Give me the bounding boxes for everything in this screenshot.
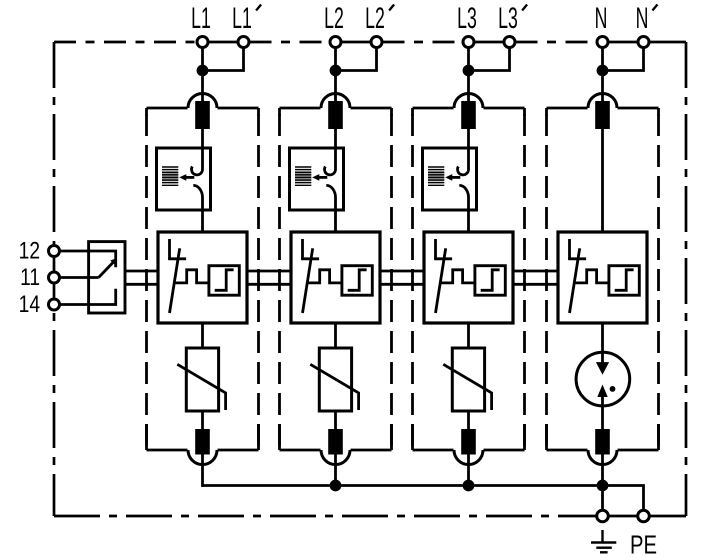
wire L3′ jumper to junction node	[474, 47, 510, 71]
plug-in contact arc (bottom) L2 branch	[321, 450, 350, 465]
junction node L1	[197, 65, 209, 77]
disconnect indication arrow L2	[312, 174, 327, 181]
junction node N	[597, 65, 609, 77]
internal bus lines between SPD modules	[125, 271, 558, 284]
trigger square-wave trace L2	[307, 270, 342, 283]
plug-in contact arc (bottom) N branch	[588, 450, 617, 465]
disconnection monitoring unit box L2	[290, 148, 344, 210]
wire terminal 12 to changeover contact	[54, 251, 116, 267]
remote signalling changeover contact box	[89, 242, 125, 313]
wire SPD module to varistor L3	[467, 323, 470, 348]
thermal disconnect device (bottom, filled) L2	[328, 429, 343, 455]
svg-text:14: 14	[19, 290, 40, 318]
moving contact arc and wire to SPD module L3	[459, 185, 468, 232]
fixed contact with hook L1	[192, 148, 203, 175]
wire SPD module to varistor L1	[201, 323, 204, 348]
plug-in contact arc (top) N branch	[588, 94, 617, 109]
wire SPD module to varistor L2	[334, 323, 337, 348]
disconnection monitoring unit box L3	[423, 148, 477, 210]
junction node L3	[463, 65, 475, 77]
wire L2 branch to PE bus	[334, 454, 337, 487]
thermal disconnect device (top, filled) L1 branch	[195, 101, 210, 129]
moving contact arc and wire to SPD module L2	[326, 185, 335, 232]
labels for phase terminals	[191, 2, 657, 35]
fixed contact with hook L2	[325, 148, 336, 175]
wire varistor to bottom disconnector L1	[201, 411, 204, 430]
terminal L3′	[504, 37, 515, 48]
disconnect indication arrow L1	[179, 174, 194, 181]
varistor (MOV) L3	[443, 348, 491, 411]
svg-text:N: N	[595, 2, 608, 35]
plug-in contact arc (top) L1 branch	[188, 94, 217, 109]
wire varistor to bottom disconnector L2	[334, 411, 337, 430]
trigger unit box N	[609, 266, 639, 296]
disconnect indication arrow L3	[445, 174, 460, 181]
terminal 12	[49, 246, 60, 257]
trigger square-wave trace L3	[440, 270, 475, 283]
plug-in contact arc (bottom) L3 branch	[454, 450, 483, 465]
wire PE bus down to PE terminal	[601, 486, 604, 517]
terminal PE-prime	[638, 510, 650, 522]
junction node N on PE bus	[597, 480, 609, 492]
thermal disconnect device (bottom, filled) L3	[461, 429, 476, 455]
changeover contact blade with arrow	[99, 258, 117, 277]
isolating switch symbol N	[568, 239, 586, 313]
terminal PE	[597, 510, 609, 522]
varistor (MOV) L2	[310, 348, 358, 411]
thermal disconnect device (bottom, filled) L1	[195, 429, 210, 455]
wire L1 branch to PE bus	[201, 454, 204, 487]
step function symbol L3	[481, 270, 500, 291]
step function symbol L1	[215, 270, 234, 291]
junction node L3 on PE bus	[463, 480, 475, 492]
ground symbol	[591, 530, 616, 552]
thermal disconnect device (top, filled) L3 branch	[461, 101, 476, 129]
status indicator hatch block L2	[295, 167, 311, 185]
trigger square-wave trace N	[574, 270, 609, 283]
wire disconnector to monitoring unit L1	[201, 129, 204, 149]
step function symbol N	[615, 270, 634, 291]
plug-in contact arc (top) L2 branch	[321, 94, 350, 109]
trigger square-wave trace L1	[174, 270, 209, 283]
wire L1′ jumper to junction node	[208, 47, 244, 71]
varistor (MOV) L1	[177, 348, 225, 411]
wire L3 branch to PE bus	[467, 454, 470, 487]
step function symbol L2	[348, 270, 367, 291]
thermal disconnect device (top, filled) L2 branch	[328, 101, 343, 129]
wire N branch to PE bus	[601, 454, 604, 487]
terminal N′	[638, 37, 649, 48]
thermal disconnect device (top, filled) N branch	[595, 101, 610, 129]
triggered spark gap N-PE	[576, 352, 630, 430]
SPD module box (switching element) L2	[291, 232, 380, 323]
dashed enclosure N branch	[547, 108, 659, 450]
wire N terminal down to disconnector	[601, 47, 604, 104]
SPD module box (switching element) L1	[158, 232, 247, 323]
terminal L2′	[371, 37, 382, 48]
dashed enclosure L2 branch	[280, 108, 392, 450]
outer enclosure border (dash-dot)	[54, 42, 686, 516]
wire L3 terminal down to disconnector	[467, 47, 470, 104]
terminal 11	[49, 272, 60, 283]
labels 12 11 14	[19, 236, 40, 317]
wire terminal 14 to changeover contact	[54, 289, 116, 305]
trigger unit box L2	[342, 266, 372, 296]
SPD module box (switching element) N	[558, 232, 647, 323]
junction node L2 on PE bus	[330, 480, 342, 492]
svg-text:L3: L3	[498, 2, 518, 35]
status indicator hatch block L1	[162, 167, 178, 185]
trigger unit box L1	[209, 266, 239, 296]
plug-in contact arc (bottom) L1 branch	[188, 450, 217, 465]
dashed enclosure L3 branch	[413, 108, 525, 450]
isolating switch symbol L1	[168, 239, 186, 313]
svg-text:L1: L1	[191, 2, 211, 35]
svg-text:L1: L1	[232, 2, 252, 35]
wire disconnector to SPD module N	[601, 129, 604, 232]
terminal L1	[197, 37, 208, 48]
status indicator hatch block L3	[428, 167, 444, 185]
moving contact arc and wire to SPD module L1	[193, 185, 202, 232]
wire L2 terminal down to disconnector	[334, 47, 337, 104]
plug-in contact arc (top) L3 branch	[454, 94, 483, 109]
terminal N	[597, 37, 608, 48]
wire disconnector to monitoring unit L2	[334, 129, 337, 149]
dashed enclosure L1 branch	[147, 108, 259, 450]
fixed contact with hook L3	[458, 148, 469, 175]
trigger unit box L3	[475, 266, 505, 296]
wire terminal 11 to changeover contact	[54, 276, 99, 279]
svg-text:11: 11	[20, 263, 40, 291]
wire disconnector to monitoring unit L3	[467, 129, 470, 149]
svg-text:PE: PE	[630, 530, 657, 559]
disconnection monitoring unit box L1	[157, 148, 211, 210]
svg-text:12: 12	[19, 236, 40, 264]
wire L2′ jumper to junction node	[341, 47, 377, 71]
wire PE bus to PE-prime terminal	[603, 486, 644, 517]
terminal L2	[330, 37, 341, 48]
terminal L1′	[238, 37, 249, 48]
svg-text:L3: L3	[457, 2, 477, 35]
wire varistor to bottom disconnector L3	[467, 411, 470, 430]
SPD module box (switching element) L3	[424, 232, 513, 323]
junction node L2	[330, 65, 342, 77]
isolating switch symbol L2	[301, 239, 319, 313]
svg-text:L2: L2	[324, 2, 344, 35]
PE bus wire	[203, 484, 603, 487]
isolating switch symbol L3	[434, 239, 452, 313]
terminal L3	[463, 37, 474, 48]
terminal 14	[49, 299, 60, 310]
wire SPD module to spark gap N	[601, 323, 604, 363]
wire N′ jumper to junction node	[608, 47, 644, 71]
svg-text:N: N	[636, 2, 649, 35]
wire L1 terminal down to disconnector	[201, 47, 204, 104]
thermal disconnect device (bottom, filled) N	[595, 429, 610, 455]
svg-text:L2: L2	[365, 2, 385, 35]
